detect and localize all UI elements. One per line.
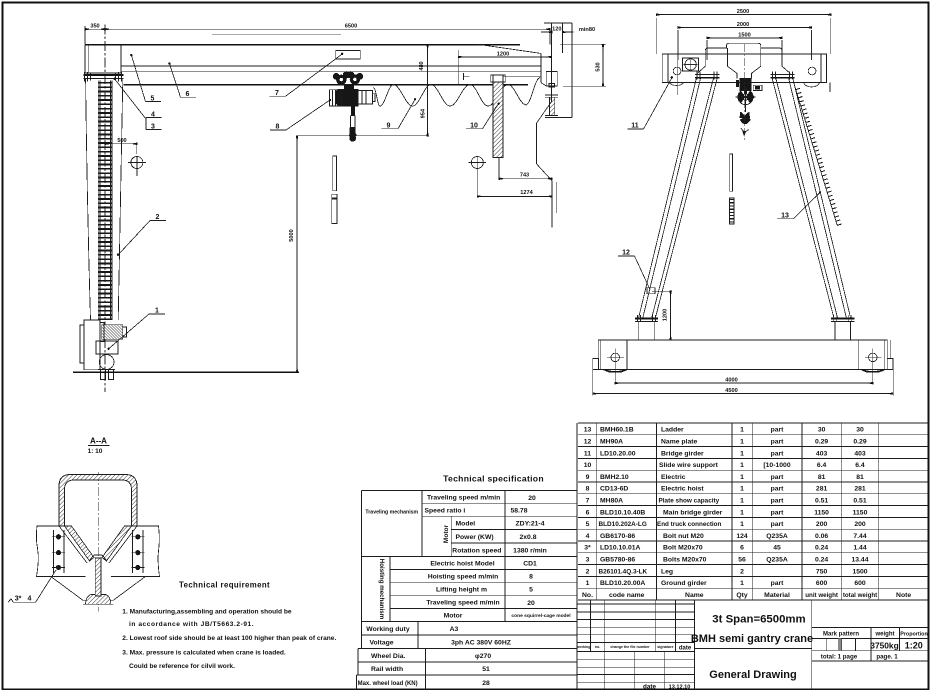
- rail cap tube (hatched walls): [59, 475, 137, 527]
- ladder rungs: [98, 82, 112, 320]
- top hump: [697, 43, 790, 78]
- svg-text:81: 81: [856, 474, 864, 481]
- svg-text:total: 1 page: total: 1 page: [821, 653, 858, 660]
- svg-text:13: 13: [781, 212, 789, 219]
- svg-text:1: 1: [586, 580, 590, 587]
- svg-text:0.51: 0.51: [815, 498, 828, 505]
- svg-text:124: 124: [736, 533, 748, 540]
- svg-text:BMH2.10: BMH2.10: [600, 474, 629, 481]
- svg-text:Technical specification: Technical specification: [443, 474, 544, 484]
- svg-text:58.78: 58.78: [510, 508, 527, 515]
- left leg: [639, 72, 720, 318]
- svg-text:Name plate: Name plate: [661, 439, 697, 446]
- svg-text:1150: 1150: [814, 509, 829, 516]
- label 13: [777, 191, 821, 219]
- svg-text:Traveling speed m/min: Traveling speed m/min: [426, 600, 499, 607]
- svg-text:1:20: 1:20: [905, 641, 923, 651]
- svg-text:Bolts M20x70: Bolts M20x70: [663, 557, 707, 564]
- svg-text:Hoisting speed m/min: Hoisting speed m/min: [428, 573, 499, 580]
- dim 350: [85, 24, 105, 44]
- svg-text:8: 8: [529, 574, 533, 581]
- svg-text:403: 403: [854, 450, 866, 457]
- svg-text:4: 4: [586, 533, 590, 540]
- label 11: [628, 76, 674, 129]
- svg-text:6500: 6500: [345, 24, 357, 30]
- svg-text:6: 6: [586, 509, 590, 516]
- revision labels: [576, 645, 674, 649]
- column cap plate with bolts: [84, 72, 124, 82]
- ground line: [73, 371, 299, 373]
- svg-text:BLD10.20.00A: BLD10.20.00A: [600, 580, 645, 587]
- svg-text:5000: 5000: [289, 229, 295, 241]
- BOM grid: [578, 423, 928, 600]
- svg-text:51: 51: [482, 666, 490, 673]
- svg-text:Max. wheel load (KN): Max. wheel load (KN): [358, 681, 418, 687]
- svg-text:1. Manufacturing,assembling an: 1. Manufacturing,assembling and operatio…: [122, 608, 292, 615]
- svg-text:Voltage: Voltage: [370, 640, 394, 647]
- svg-text:Qty: Qty: [736, 592, 748, 599]
- dim 1200 (left view): [458, 50, 551, 84]
- ladder rails: [98, 81, 112, 321]
- rail head and web: [86, 555, 111, 604]
- svg-text:4500: 4500: [725, 388, 737, 394]
- svg-text:0.24: 0.24: [815, 557, 828, 564]
- svg-text:GB5780-86: GB5780-86: [600, 557, 635, 564]
- svg-text:Power (KW): Power (KW): [456, 534, 494, 541]
- svg-text:2: 2: [740, 568, 744, 575]
- svg-text:3: 3: [586, 557, 590, 564]
- svg-text:Model: Model: [456, 521, 476, 528]
- svg-text:BMH60.1B: BMH60.1B: [600, 427, 634, 434]
- svg-text:81: 81: [818, 474, 826, 481]
- svg-text:Q235A: Q235A: [766, 533, 788, 540]
- svg-text:1: 1: [740, 509, 744, 516]
- svg-text:part: part: [771, 450, 785, 457]
- hook level line: [297, 135, 429, 137]
- svg-text:Rotation speed: Rotation speed: [452, 547, 501, 554]
- funnel walls: [59, 526, 137, 563]
- svg-text:6.4: 6.4: [817, 462, 827, 469]
- dim 1274: [477, 190, 552, 196]
- svg-text:1200: 1200: [663, 309, 669, 321]
- svg-text:Q235A: Q235A: [766, 557, 788, 564]
- svg-text:30: 30: [856, 427, 864, 434]
- svg-text:281: 281: [816, 486, 828, 493]
- svg-text:Traveling speed m/min: Traveling speed m/min: [427, 495, 500, 502]
- svg-text:0.29: 0.29: [853, 439, 866, 446]
- svg-text:10: 10: [584, 462, 592, 469]
- svg-text:403: 403: [816, 450, 828, 457]
- svg-text:3ph AC 380V 60HZ: 3ph AC 380V 60HZ: [451, 640, 511, 647]
- label 1: [107, 308, 165, 350]
- svg-text:part: part: [771, 580, 785, 587]
- dim 1500: [707, 32, 782, 60]
- item 12 plate on left leg: [647, 288, 655, 294]
- dim 4500: [593, 358, 893, 395]
- svg-text:480: 480: [419, 61, 425, 70]
- svg-text:φ270: φ270: [475, 653, 491, 660]
- dim 530: [560, 45, 606, 87]
- svg-text:200: 200: [854, 521, 866, 528]
- svg-text:750: 750: [816, 568, 828, 575]
- svg-text:9: 9: [586, 474, 590, 481]
- svg-text:Rail width: Rail width: [371, 666, 403, 673]
- bolts: [52, 534, 145, 570]
- svg-text:20: 20: [527, 600, 535, 607]
- svg-text:3. Max. pressure is calculated: 3. Max. pressure is calculated when cran…: [122, 649, 286, 656]
- svg-text:350: 350: [90, 24, 99, 30]
- bridge girder lines: [85, 44, 546, 86]
- svg-text:in accordance with JB/T5663.2-: in accordance with JB/T5663.2-91.: [129, 621, 254, 628]
- svg-text:Hoisting mechanism: Hoisting mechanism: [378, 559, 385, 620]
- svg-text:Bridge girder: Bridge girder: [661, 450, 704, 457]
- svg-text:Main bridge girder: Main bridge girder: [663, 509, 723, 516]
- svg-text:A--A: A--A: [90, 437, 107, 446]
- svg-text:No.: No.: [582, 592, 593, 599]
- svg-text:7: 7: [586, 498, 590, 505]
- dim 2000: [678, 22, 812, 60]
- svg-text:56: 56: [738, 557, 746, 564]
- svg-text:30: 30: [818, 427, 826, 434]
- centerline end view: [743, 44, 745, 140]
- svg-text:Proportion: Proportion: [900, 632, 928, 638]
- svg-text:20: 20: [528, 495, 536, 502]
- svg-text:LD10.10.01A: LD10.10.01A: [600, 545, 641, 552]
- svg-text:no.: no.: [595, 645, 600, 649]
- svg-text:200: 200: [816, 521, 828, 528]
- svg-text:3750kg: 3750kg: [870, 640, 898, 650]
- svg-text:2x0.8: 2x0.8: [519, 534, 536, 541]
- svg-text:11: 11: [584, 450, 591, 457]
- svg-text:3*: 3*: [584, 545, 591, 552]
- revision grid upper: [577, 600, 695, 689]
- dim 120: [541, 27, 574, 33]
- girder walkway line: [212, 34, 341, 36]
- svg-text:change the file number: change the file number: [610, 645, 650, 649]
- dim 500 with buffer symbol: [105, 138, 146, 176]
- svg-text:4: 4: [28, 596, 32, 603]
- svg-text:Could be reference for cilvil: Could be reference for cilvil work.: [129, 663, 235, 670]
- svg-text:CD1: CD1: [523, 561, 537, 568]
- svg-text:BMH semi gantry crane: BMH semi gantry crane: [691, 633, 813, 645]
- svg-text:Technical requirement: Technical requirement: [179, 581, 270, 590]
- svg-text:1: 1: [740, 427, 744, 434]
- dim 2500: [657, 9, 831, 54]
- end carriage beam: [662, 54, 826, 83]
- svg-text:cone squirrel-cage model: cone squirrel-cage model: [511, 613, 571, 619]
- svg-text:date: date: [643, 683, 656, 690]
- svg-text:2000: 2000: [737, 22, 749, 28]
- svg-text:120: 120: [552, 27, 561, 33]
- svg-text:BLD10.202A-LG: BLD10.202A-LG: [599, 521, 647, 528]
- svg-text:3*: 3*: [15, 596, 22, 603]
- svg-text:Ladder: Ladder: [661, 427, 684, 434]
- svg-text:Plate show capacity: Plate show capacity: [659, 498, 720, 505]
- svg-text:Note: Note: [896, 592, 911, 599]
- svg-text:General Drawing: General Drawing: [709, 669, 796, 681]
- svg-text:A3: A3: [450, 626, 459, 633]
- svg-text:Electric hoist: Electric hoist: [661, 486, 704, 493]
- svg-text:Mark pattern: Mark pattern: [823, 632, 859, 638]
- svg-text:part: part: [771, 509, 785, 516]
- mark pattern table: [812, 627, 929, 661]
- svg-text:1: 1: [740, 498, 744, 505]
- svg-text:4000: 4000: [725, 378, 737, 384]
- labels 5 4 3: [113, 54, 161, 130]
- slide wire support (item 10): [491, 75, 505, 158]
- svg-text:0.24: 0.24: [815, 545, 828, 552]
- svg-text:unit weight: unit weight: [805, 592, 838, 599]
- dim 743: [499, 158, 552, 180]
- svg-text:0.06: 0.06: [815, 533, 828, 540]
- svg-text:5: 5: [529, 587, 533, 594]
- svg-text:28: 28: [482, 680, 490, 687]
- test weight bars (end view): [729, 154, 734, 224]
- svg-text:Name: Name: [685, 592, 704, 599]
- svg-text:13.44: 13.44: [851, 557, 868, 564]
- dim 4000: [615, 378, 873, 384]
- svg-text:part: part: [771, 439, 785, 446]
- svg-text:1: 10: 1: 10: [88, 448, 103, 455]
- svg-text:1: 1: [740, 462, 744, 469]
- svg-text:1: 1: [740, 450, 744, 457]
- buffer symbol right: [469, 157, 487, 197]
- svg-text:Speed ratio i: Speed ratio i: [425, 507, 466, 514]
- svg-text:B26101.4Q.3-LK: B26101.4Q.3-LK: [599, 568, 648, 575]
- svg-text:8: 8: [276, 124, 280, 131]
- label 7: [270, 51, 361, 98]
- lower trapezoid support: [51, 576, 146, 604]
- base wheels: [604, 348, 884, 384]
- svg-text:8: 8: [586, 486, 590, 493]
- svg-text:1380 r/min: 1380 r/min: [513, 548, 547, 555]
- svg-text:Material: Material: [764, 592, 790, 599]
- bottom carriage (item 1): [80, 320, 126, 380]
- svg-text:2: 2: [586, 568, 590, 575]
- svg-text:[10-1000: [10-1000: [763, 462, 790, 469]
- label 2: [117, 214, 166, 256]
- svg-text:signature: signature: [657, 645, 673, 649]
- ground girder (base beam): [598, 340, 887, 370]
- svg-text:2500: 2500: [737, 9, 749, 15]
- svg-text:1500: 1500: [738, 32, 750, 38]
- top anchor box: [85, 45, 121, 73]
- test weight bars (left view): [332, 156, 337, 223]
- leg lower flanges: [635, 315, 854, 340]
- svg-text:13: 13: [584, 427, 592, 434]
- svg-text:1200: 1200: [497, 51, 509, 57]
- svg-text:date: date: [679, 645, 692, 651]
- svg-text:500: 500: [117, 138, 126, 144]
- svg-text:1: 1: [155, 308, 159, 315]
- dim 5000: [289, 136, 297, 372]
- hoist chain and hook: [349, 107, 357, 142]
- svg-text:743: 743: [520, 173, 529, 179]
- label 9: [381, 98, 416, 129]
- svg-text:0.51: 0.51: [853, 498, 866, 505]
- svg-text:1274: 1274: [520, 190, 533, 196]
- wall lines: [536, 23, 572, 228]
- svg-text:Lifting height m: Lifting height m: [436, 586, 487, 593]
- svg-text:Bolt M20x70: Bolt M20x70: [663, 545, 703, 552]
- label 10: [466, 103, 500, 130]
- svg-text:part: part: [771, 474, 785, 481]
- svg-text:6.4: 6.4: [855, 462, 865, 469]
- svg-text:Leg: Leg: [661, 568, 673, 575]
- pulley and hook (end view): [736, 87, 756, 137]
- svg-text:1: 1: [740, 580, 744, 587]
- dim 480 / 954: [419, 45, 433, 136]
- svg-text:1500: 1500: [852, 568, 867, 575]
- svg-text:page. 1: page. 1: [876, 653, 898, 660]
- ladder on right leg (item 13): [795, 88, 837, 226]
- svg-text:code name: code name: [609, 592, 645, 599]
- svg-text:2. Lowest roof side should be: 2. Lowest roof side should be at least 1…: [122, 635, 336, 642]
- spec table grid: [357, 423, 578, 689]
- svg-text:Bolt nut M20: Bolt nut M20: [663, 533, 704, 540]
- electric hoist trolley (left view): [330, 71, 376, 106]
- column centerline: [104, 25, 106, 393]
- svg-text:part: part: [771, 521, 785, 528]
- svg-text:min80: min80: [579, 27, 595, 33]
- svg-text:13.12.10: 13.12.10: [669, 684, 691, 690]
- svg-text:1: 1: [740, 439, 744, 446]
- svg-text:0.29: 0.29: [815, 439, 828, 446]
- svg-text:Slide wire support: Slide wire support: [659, 462, 719, 469]
- svg-text:3t Span=6500mm: 3t Span=6500mm: [712, 614, 805, 626]
- svg-text:Motor: Motor: [444, 613, 463, 620]
- dim 1200 (right view): [652, 291, 672, 340]
- label 6: [168, 62, 196, 98]
- svg-text:5: 5: [586, 521, 590, 528]
- svg-text:Wheel Dia.: Wheel Dia.: [371, 653, 405, 660]
- svg-text:MH80A: MH80A: [600, 498, 623, 505]
- svg-text:12: 12: [622, 250, 630, 257]
- right leg: [770, 72, 850, 318]
- labels 3* 4: [8, 570, 56, 603]
- svg-text:part: part: [771, 486, 785, 493]
- svg-text:ZDY:21-4: ZDY:21-4: [516, 521, 545, 528]
- svg-text:MH90A: MH90A: [600, 439, 623, 446]
- svg-text:End truck connection: End truck connection: [657, 521, 722, 528]
- section centerline: [97, 472, 99, 612]
- svg-text:working: working: [576, 645, 591, 649]
- svg-text:7.44: 7.44: [853, 533, 866, 540]
- svg-text:GB6170-86: GB6170-86: [600, 533, 635, 540]
- buffers on base: [593, 340, 893, 370]
- label 12: [618, 250, 650, 290]
- side plates with break lines: [36, 526, 159, 576]
- svg-text:45: 45: [773, 545, 781, 552]
- svg-text:Electric: Electric: [661, 474, 686, 481]
- svg-text:600: 600: [816, 580, 828, 587]
- svg-text:part: part: [771, 427, 785, 434]
- wheels under beam: [669, 82, 830, 92]
- BOM rows text: [582, 427, 911, 599]
- svg-text:1.44: 1.44: [853, 545, 866, 552]
- svg-text:Ground girder: Ground girder: [661, 580, 707, 587]
- label 8: [270, 99, 331, 131]
- hoist trolley (end view): [736, 78, 762, 94]
- festoon cable: [374, 77, 541, 106]
- wall bracket and end stop: [545, 71, 572, 117]
- svg-text:954: 954: [421, 108, 427, 118]
- svg-text:2: 2: [156, 214, 160, 221]
- svg-text:Electric hoist Model: Electric hoist Model: [430, 561, 494, 568]
- svg-text:Motor: Motor: [443, 524, 450, 543]
- column taper edges: [86, 79, 123, 320]
- svg-text:6: 6: [740, 545, 744, 552]
- title area: [811, 600, 813, 689]
- svg-text:part: part: [771, 498, 785, 505]
- svg-text:1150: 1150: [853, 509, 868, 516]
- dim 6500: [105, 24, 550, 45]
- svg-text:530: 530: [596, 62, 602, 71]
- svg-text:BLD10.10.40B: BLD10.10.40B: [600, 509, 645, 516]
- svg-text:1: 1: [740, 474, 744, 481]
- svg-text:1: 1: [740, 486, 744, 493]
- svg-text:Working duty: Working duty: [366, 626, 410, 633]
- svg-text:600: 600: [854, 580, 866, 587]
- svg-text:281: 281: [854, 486, 866, 493]
- svg-text:Traveling mechanism: Traveling mechanism: [365, 510, 418, 516]
- svg-text:1: 1: [740, 521, 744, 528]
- revision grid lower: [577, 651, 695, 689]
- svg-text:12: 12: [584, 439, 592, 446]
- svg-text:total weight: total weight: [843, 592, 877, 599]
- section title A--A 1:10: [88, 437, 110, 455]
- hanger clamp on girder: [463, 73, 469, 80]
- svg-text:weight: weight: [875, 632, 895, 638]
- svg-text:CD13-6D: CD13-6D: [600, 486, 628, 493]
- wheel circles and plate: [673, 58, 816, 96]
- svg-text:LD10.20.00: LD10.20.00: [600, 450, 636, 457]
